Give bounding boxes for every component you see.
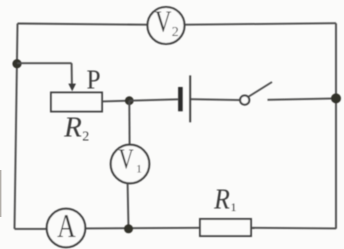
wire wiper feed vertical — [71, 63, 73, 85]
svg-text:1: 1 — [136, 162, 142, 176]
switch blade — [248, 82, 272, 97]
scan smudge left edge — [0, 170, 2, 217]
svg-text:V: V — [155, 4, 172, 38]
battery cell long plate — [189, 75, 191, 122]
ammeter A circle — [47, 209, 86, 248]
battery cell short plate — [178, 87, 183, 111]
voltmeter U=V2 circle — [148, 7, 185, 44]
svg-text:V: V — [118, 144, 133, 175]
node right junction dot — [331, 93, 341, 103]
voltmeter V1 circle — [111, 145, 150, 184]
wire right side vertical — [335, 23, 337, 229]
wire V2 to top-right corner — [185, 23, 337, 25]
rheostat R2 box — [51, 93, 102, 112]
wire battery to switch — [191, 98, 240, 101]
wire R2 to middle junction — [102, 100, 129, 103]
node middle junction dot — [125, 96, 134, 105]
svg-text:2: 2 — [82, 130, 89, 145]
wiper arrowhead — [68, 84, 76, 92]
svg-text:1: 1 — [231, 200, 237, 214]
wire ammeter to bottom-left corner — [15, 228, 48, 230]
svg-text:R: R — [213, 184, 230, 215]
wire left side vertical — [15, 24, 18, 229]
wire bottom right-corner to R1 — [251, 227, 336, 230]
wire V1 down to bottom junction — [127, 183, 130, 229]
svg-text:R: R — [63, 112, 82, 144]
wire R1 to ammeter — [85, 227, 200, 230]
wire top-left to V2 — [18, 24, 149, 25]
svg-text:P: P — [86, 64, 100, 95]
resistor R1 box — [200, 219, 251, 236]
wire switch to right side — [268, 98, 337, 99]
switch pivot circle — [240, 96, 249, 105]
node junction dot left (wiper tap) — [12, 59, 21, 68]
svg-text:2: 2 — [172, 25, 179, 40]
wire junction down to V1 — [128, 101, 130, 145]
wire junction to battery — [129, 99, 178, 100]
wire wiper feed horizontal — [17, 62, 72, 64]
node bottom junction dot — [124, 224, 133, 233]
svg-text:A: A — [57, 208, 76, 245]
